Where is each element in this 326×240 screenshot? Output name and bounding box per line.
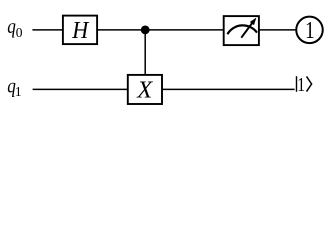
- svg-text:0: 0: [16, 25, 23, 40]
- svg-text:1: 1: [15, 84, 22, 99]
- node q1 label: [7, 75, 21, 99]
- svg-text:X: X: [136, 76, 153, 103]
- svg-text:1: 1: [305, 17, 315, 44]
- wire q0: [32, 29, 295, 31]
- svg-text:q: q: [7, 16, 16, 38]
- wire q1: [33, 88, 295, 90]
- control dot: [141, 26, 150, 35]
- svg-text:1: 1: [297, 74, 305, 96]
- gate H (Hadamard): [63, 16, 97, 44]
- node q0 label: [7, 16, 23, 40]
- measurement meter M: [224, 16, 259, 45]
- wire CNOT vertical: [144, 30, 146, 76]
- node |1> ket: [297, 74, 312, 96]
- classical result circle 1: [296, 17, 323, 44]
- gate X (CNOT target): [128, 75, 162, 104]
- svg-text:H: H: [71, 17, 89, 44]
